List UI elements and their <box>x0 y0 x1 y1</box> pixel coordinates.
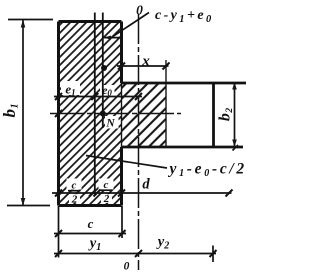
label d <box>142 177 150 193</box>
dimension x <box>117 63 170 70</box>
label N <box>105 118 115 130</box>
dimension c <box>54 230 126 237</box>
hatching of vertical web of T-section <box>59 22 122 206</box>
dimension b2 <box>232 82 238 151</box>
svg-text:c: c <box>72 180 77 192</box>
label e1 <box>65 82 75 98</box>
fraction bar c/2 left <box>68 190 81 192</box>
label x <box>141 54 150 70</box>
mid-flange line c/2 <box>94 13 96 197</box>
svg-text:N: N <box>105 118 115 130</box>
label c-y1+e0 <box>155 8 214 25</box>
svg-text:c: c <box>88 216 94 231</box>
compressed zone boundary line x <box>165 83 167 147</box>
dimension row c/2 c/2 and d <box>52 190 233 197</box>
horizontal centroidal axis <box>50 110 181 117</box>
extension line left edge below <box>58 206 60 258</box>
label e0 <box>102 83 112 98</box>
point on N line at top <box>101 65 107 71</box>
svg-text:0: 0 <box>136 3 143 18</box>
label c/2 left <box>71 180 78 206</box>
extension line right web edge below <box>121 206 123 238</box>
label c <box>88 216 94 231</box>
vertical axis 0-0 <box>138 14 140 270</box>
svg-text:2: 2 <box>71 194 78 206</box>
point of application of force N <box>100 111 106 117</box>
dimension row e1 and e0 <box>54 93 142 100</box>
extension line for x <box>165 60 167 83</box>
hatching of compressed flange zone <box>61 81 166 203</box>
leader for c-y1+e0 <box>104 13 149 40</box>
svg-text:x: x <box>141 54 150 70</box>
label y1-e0-c/2 <box>168 161 247 180</box>
label b2 <box>217 108 236 122</box>
dimension row y1 y2 <box>54 250 217 257</box>
fraction bar c/2 right <box>100 189 113 191</box>
dimension b1 <box>21 20 26 207</box>
label b1 <box>0 104 21 118</box>
label 0 top <box>136 3 143 18</box>
svg-text:2: 2 <box>103 193 110 205</box>
label y2 <box>156 234 169 252</box>
label y1 <box>88 236 101 254</box>
line of action of force N <box>102 13 104 129</box>
leader for y1-e0-c/2 <box>86 156 167 169</box>
extension line flange right edge below <box>212 246 214 263</box>
svg-text:0: 0 <box>124 261 130 273</box>
web-flange junction line <box>121 83 123 147</box>
extension line top for b1 <box>8 19 53 21</box>
svg-text:d: d <box>142 177 150 193</box>
extension line bottom for b1 <box>7 205 50 207</box>
label c/2 right <box>103 179 110 205</box>
section outline: vertical web rectangle <box>59 22 122 206</box>
section outline: flange rectangle <box>122 83 247 147</box>
svg-text:c: c <box>104 179 109 191</box>
label 0 bottom <box>124 261 130 273</box>
